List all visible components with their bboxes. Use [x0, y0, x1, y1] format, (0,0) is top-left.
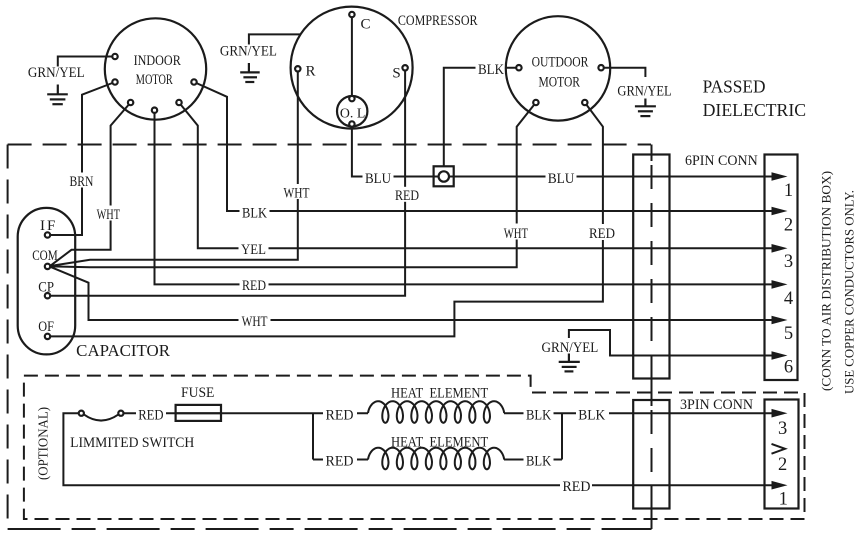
svg-text:GRN/YEL: GRN/YEL	[220, 44, 277, 60]
3 pin connector body	[765, 400, 799, 509]
O.L terminal top	[349, 96, 354, 101]
label BLK (outdoor motor wire)	[476, 61, 507, 79]
wire W14: outdoor motor bottom-left WHT to capacitor COM	[50, 103, 536, 268]
svg-text:WHT: WHT	[284, 185, 310, 201]
label BRN	[68, 173, 95, 190]
svg-text:BLK: BLK	[478, 62, 504, 78]
harness bus block (lower)	[633, 400, 669, 509]
wire W2: indoor motor left terminal BRN to capacitor IF	[50, 82, 115, 235]
label BLU (right)	[546, 169, 577, 187]
6pin arrow pin1	[772, 172, 788, 181]
3pin arrow pin3	[772, 409, 788, 418]
capacitor terminal CP	[45, 293, 50, 298]
label BLU (left)	[363, 169, 394, 187]
svg-text:WHT: WHT	[504, 226, 528, 242]
label RED (before fuse)	[136, 406, 166, 424]
wire W1: indoor motor top-left terminal to ground GRN/YEL	[58, 57, 115, 67]
6pin arrow pin2	[772, 207, 788, 216]
indoor motor terminal (right)	[191, 79, 196, 84]
junction plug J1	[434, 166, 454, 186]
svg-text:COMPRESSOR: COMPRESSOR	[398, 13, 478, 29]
svg-text:BRN: BRN	[70, 174, 94, 190]
outdoor motor terminal (bottom-left)	[533, 100, 538, 105]
label RED (return wire)	[560, 478, 592, 495]
wire: optional-section dashed box	[24, 376, 805, 519]
svg-text:BLU: BLU	[548, 171, 575, 187]
label BLK (after heat element 1)	[524, 406, 554, 424]
label WHT (compressor R wire)	[282, 184, 311, 201]
svg-text:S: S	[392, 66, 400, 82]
wire W17: 6pin pin6 GRN/YEL to ground	[569, 330, 773, 356]
3pin chevron pin2	[772, 444, 786, 454]
svg-text:LIMMITED SWITCH: LIMMITED SWITCH	[70, 435, 194, 451]
svg-text:2: 2	[778, 455, 787, 475]
label RED (after fuse)	[323, 406, 357, 424]
wire: harness bus center line	[651, 145, 653, 162]
wire: indoor unit dashed boundary top	[8, 144, 651, 146]
label YEL	[239, 241, 269, 258]
label RED (pin4 wire)	[240, 277, 269, 294]
wire W18: switch return to 3pin pin1	[63, 413, 773, 485]
6pin arrow pin4	[772, 280, 788, 289]
svg-text:FUSE: FUSE	[181, 385, 214, 401]
heat element R1 coil	[368, 401, 504, 423]
capacitor terminal IF	[45, 232, 50, 237]
outdoor motor terminal (right)	[598, 65, 603, 70]
svg-text:6: 6	[784, 357, 793, 377]
wire W7: compressor shell to ground GRN/YEL	[249, 34, 301, 44]
svg-text:WHT: WHT	[242, 314, 268, 330]
svg-text:3: 3	[778, 419, 787, 439]
svg-text:GRN/YEL: GRN/YEL	[617, 83, 671, 99]
wire W8: compressor C terminal to O.L protector	[351, 17, 353, 96]
svg-text:CP: CP	[38, 280, 54, 296]
label WHT (indoor motor wire)	[95, 206, 122, 223]
harness bus block (upper)	[633, 155, 669, 379]
svg-text:2: 2	[784, 215, 793, 235]
wire W3: indoor motor bottom-left terminal WHT to capacitor COM	[50, 103, 130, 266]
indoor motor terminal (left)	[112, 79, 117, 84]
svg-text:RED: RED	[326, 454, 354, 470]
wire: indoor unit dashed boundary left	[7, 145, 9, 530]
svg-text:(CONN TO AIR DISTRIBUTION BOX): (CONN TO AIR DISTRIBUTION BOX)	[819, 171, 834, 391]
svg-text:BLU: BLU	[365, 171, 391, 187]
indoor motor terminal (bottom-right)	[176, 100, 181, 105]
wire W11: compressor O.L BLU to 6pin pin1	[352, 127, 773, 177]
svg-text:HEAT ELEMENT: HEAT ELEMENT	[391, 385, 488, 401]
svg-text:WHT: WHT	[97, 207, 120, 223]
svg-text:RED: RED	[326, 407, 354, 423]
svg-text:IF: IF	[40, 218, 57, 234]
svg-text:OUTDOOR: OUTDOOR	[532, 54, 589, 70]
svg-text:USE COPPER CONDUCTORS ONLY.: USE COPPER CONDUCTORS ONLY.	[842, 190, 857, 394]
wire W13: outdoor motor right terminal to ground GRN/YEL	[604, 68, 646, 77]
svg-text:MOTOR: MOTOR	[539, 74, 581, 90]
indoor motor M1	[105, 18, 206, 119]
svg-text:1: 1	[784, 181, 793, 201]
label GRN/YEL (pin6 ground)	[540, 339, 601, 356]
svg-text:MOTOR: MOTOR	[136, 72, 173, 88]
3pin arrow pin1	[772, 481, 788, 490]
capacitor terminal OF	[45, 334, 50, 339]
svg-text:R: R	[306, 63, 316, 79]
svg-text:RED: RED	[138, 407, 164, 423]
indoor motor terminal (top-left)	[112, 54, 117, 59]
wire W19: switch to fuse to heaters to 3pin pin3	[124, 412, 369, 414]
svg-text:1: 1	[779, 490, 788, 510]
ground G3 GRN/YEL (outdoor)	[635, 99, 656, 117]
svg-text:RED: RED	[589, 226, 615, 242]
outdoor motor terminal (left)	[516, 65, 521, 70]
wire: indoor unit dashed boundary bottom	[8, 528, 652, 530]
capacitor terminal COM	[45, 264, 50, 269]
label WHT (outdoor motor wire)	[502, 224, 531, 242]
ground G2 GRN/YEL (compressor)	[240, 63, 260, 82]
wire W10: compressor S terminal RED to capacitor CP	[50, 70, 405, 295]
fuse F1	[176, 405, 221, 421]
svg-text:BLK: BLK	[526, 407, 551, 423]
indoor motor terminal (bottom-left)	[128, 100, 133, 105]
wire W4: indoor motor bottom-center terminal RED to 6pin pin4	[155, 110, 774, 284]
svg-text:GRN/YEL: GRN/YEL	[28, 65, 85, 81]
svg-text:O. L: O. L	[340, 105, 365, 120]
wire W9: compressor R terminal WHT to capacitor COM	[50, 71, 297, 266]
svg-text:YEL: YEL	[241, 242, 266, 258]
O.L terminal bottom	[349, 121, 354, 126]
svg-text:COM: COM	[32, 248, 58, 264]
label BLK (to 3pin pin3)	[576, 406, 609, 424]
svg-text:5: 5	[784, 324, 793, 344]
svg-text:INDOOR: INDOOR	[134, 53, 181, 69]
svg-text:RED: RED	[563, 479, 591, 495]
label RED (heat element 2)	[323, 452, 357, 470]
limit switch SW1	[79, 411, 124, 421]
6pin arrow pin5	[772, 316, 788, 325]
wire W21: heater join right vertical	[561, 413, 563, 459]
svg-text:DIELECTRIC: DIELECTRIC	[703, 100, 807, 120]
svg-text:PASSED: PASSED	[703, 76, 766, 96]
label BLK (heat element 2)	[524, 452, 554, 470]
indoor motor terminal (bottom-center)	[152, 108, 157, 113]
svg-text:RED: RED	[242, 278, 266, 294]
svg-text:HEAT ELEMENT: HEAT ELEMENT	[391, 435, 488, 451]
6 pin connector body	[765, 155, 798, 381]
wire W6: indoor motor right terminal BLK to 6pin pin2	[194, 82, 773, 211]
overload protector O.L	[337, 96, 367, 126]
outdoor motor terminal (bottom-right)	[582, 100, 587, 105]
ground G4 GRN/YEL (pin6)	[559, 353, 580, 371]
label BLK (pin2 wire)	[240, 204, 270, 222]
wire W22: bottom heater row	[313, 459, 368, 461]
ground G1 GRN/YEL	[47, 85, 68, 105]
svg-text:BLK: BLK	[526, 454, 551, 470]
svg-text:BLK: BLK	[242, 205, 267, 221]
svg-text:4: 4	[784, 289, 793, 309]
wire W5: indoor motor bottom-right terminal YEL to 6pin pin3	[179, 103, 773, 249]
svg-text:C: C	[361, 17, 371, 33]
compressor terminal C	[349, 12, 354, 17]
wire W20: heater branch left vertical	[312, 413, 314, 459]
svg-text:BLK: BLK	[578, 407, 605, 423]
svg-text:RED: RED	[395, 188, 419, 204]
6pin arrow pin3	[772, 244, 788, 253]
svg-text:CAPACITOR: CAPACITOR	[76, 341, 170, 360]
svg-text:3PIN CONN: 3PIN CONN	[680, 397, 753, 413]
wire W12: outdoor motor left terminal BLK to junction plug	[444, 68, 517, 167]
6pin arrow pin6	[772, 351, 788, 360]
svg-text:GRN/YEL: GRN/YEL	[542, 340, 599, 356]
label RED (compressor S wire)	[393, 187, 421, 204]
heat element R2 coil	[368, 448, 504, 470]
compressor terminal R	[295, 66, 300, 71]
outdoor motor M3	[506, 16, 610, 120]
wire W16: capacitor COM WHT to 6pin pin5	[50, 267, 773, 320]
wire W15: outdoor motor bottom-right RED to capacitor OF	[50, 103, 603, 337]
compressor M2	[291, 7, 413, 129]
svg-text:(OPTIONAL): (OPTIONAL)	[36, 407, 51, 480]
svg-text:OF: OF	[38, 319, 54, 335]
label WHT (pin5 wire)	[239, 312, 271, 330]
svg-text:3: 3	[784, 252, 793, 272]
svg-text:6PIN CONN: 6PIN CONN	[685, 153, 758, 169]
label RED (outdoor motor wire)	[588, 224, 618, 242]
capacitor C1 body	[18, 208, 75, 355]
compressor terminal S	[402, 65, 407, 70]
